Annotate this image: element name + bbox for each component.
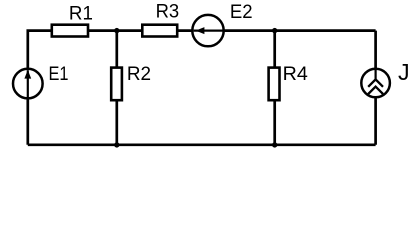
svg-text:R2: R2	[127, 63, 151, 85]
svg-text:E1: E1	[49, 63, 69, 85]
J shaft	[375, 69, 377, 81]
node A junction dot	[114, 28, 119, 33]
E2 arrow shaft	[194, 30, 224, 32]
svg-text:J: J	[398, 59, 410, 85]
wire: bottom rail	[28, 143, 376, 146]
wire: node A down to R2 and R2 to bottom rail	[115, 31, 118, 145]
wire: top-left corner (left riser to R1 lead)	[28, 31, 52, 69]
wire: node B down to R4 and R4 to bottom rail	[273, 31, 276, 145]
resistor R4	[269, 68, 280, 101]
resistor R2	[111, 68, 122, 101]
wire: R3 right lead to E2 and across to right corner	[177, 29, 376, 32]
resistor R1	[52, 25, 88, 37]
wire: left riser through E1 down to bottom rail	[26, 69, 29, 145]
resistor R3	[142, 25, 177, 37]
node B junction dot	[272, 28, 277, 33]
bottom junction dot under R2	[114, 142, 119, 147]
E1 arrow shaft	[27, 70, 29, 97]
J lower chevron	[368, 87, 383, 94]
svg-text:R4: R4	[283, 63, 308, 85]
voltage source E2 (circle)	[192, 15, 223, 46]
wire: R1 right lead to R3 left lead through node A	[89, 29, 142, 32]
svg-text:R1: R1	[69, 2, 93, 24]
E1 arrowhead	[24, 70, 31, 79]
svg-text:R3: R3	[156, 1, 180, 23]
bottom junction dot under R4	[272, 142, 277, 147]
J upper chevron	[368, 79, 383, 86]
E2 arrowhead	[196, 27, 205, 34]
wire: right riser down to J	[374, 31, 377, 145]
voltage source E1 (circle)	[13, 69, 43, 99]
svg-text:E2: E2	[230, 1, 253, 23]
current source J (circle)	[361, 69, 390, 98]
